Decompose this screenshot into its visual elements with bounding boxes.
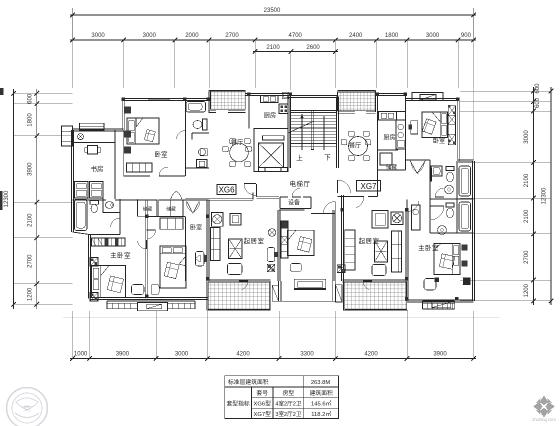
master balcony1 rail xyxy=(107,300,195,302)
svg-text:XG7: XG7 xyxy=(360,182,377,191)
master1 door xyxy=(146,240,148,249)
svg-text:2400: 2400 xyxy=(349,33,363,39)
svg-text:3000: 3000 xyxy=(175,352,189,358)
dining2 table xyxy=(349,137,368,156)
bath1 door xyxy=(185,131,187,140)
svg-text:2100: 2100 xyxy=(266,45,280,51)
living2 armoire xyxy=(345,230,355,270)
hall2 walls xyxy=(406,159,431,161)
living1 tv cabinet xyxy=(229,239,243,259)
bottom extension lines xyxy=(72,311,74,359)
master balcony2 planter xyxy=(432,302,451,308)
living1 east table xyxy=(268,229,276,237)
bath2 washer xyxy=(197,160,208,168)
hall arch double door xyxy=(171,192,182,199)
bedroom1 east wall xyxy=(185,100,187,176)
bedroom2 door xyxy=(147,229,156,231)
column g xyxy=(206,277,209,280)
master2 pouf xyxy=(424,279,436,291)
bedroom1 west wall xyxy=(123,130,125,176)
column c xyxy=(207,98,210,101)
left extension lines xyxy=(14,92,73,94)
bedroom2 pouf xyxy=(151,285,159,295)
middle bedroom bay window xyxy=(294,279,326,289)
right dimension row xyxy=(533,87,535,305)
master bedroom1 wardrobe xyxy=(92,238,126,246)
bath5 sink xyxy=(438,226,447,235)
master2 walls xyxy=(406,200,408,212)
svg-text:厨房: 厨房 xyxy=(383,134,395,142)
column s xyxy=(405,208,408,211)
svg-text:118.2㎡: 118.2㎡ xyxy=(311,410,331,418)
left overall dimension 12300 xyxy=(13,89,15,309)
svg-text:1800: 1800 xyxy=(28,113,34,127)
column a xyxy=(122,98,125,101)
svg-text:263.8M: 263.8M xyxy=(311,380,331,386)
bath3 partition b xyxy=(103,212,120,214)
svg-text:600: 600 xyxy=(28,93,34,104)
master bedroom1 bed xyxy=(92,266,126,298)
balcony2 rail xyxy=(344,309,408,311)
unit XG6 entry door xyxy=(244,183,256,185)
storage2 room xyxy=(378,169,406,171)
svg-text:900: 900 xyxy=(461,33,472,39)
svg-text:卧室: 卧室 xyxy=(433,137,445,145)
svg-text:电梯厅: 电梯厅 xyxy=(290,179,311,188)
bedroom1 bottom wall xyxy=(124,175,150,177)
svg-text:4室2厅2卫: 4室2厅2卫 xyxy=(275,400,302,408)
top dimension row xyxy=(70,39,476,41)
master balcony1 planter xyxy=(138,303,168,311)
shoe cabinet xyxy=(160,218,183,229)
hall south wall xyxy=(311,213,335,215)
svg-text:2100: 2100 xyxy=(524,209,530,223)
svg-text:3室2厅2卫: 3室2厅2卫 xyxy=(275,410,302,418)
unit XG7 outer walls xyxy=(378,93,406,95)
svg-text:标准层建筑面积: 标准层建筑面积 xyxy=(228,378,269,386)
living1 coffee table xyxy=(228,264,243,275)
column m xyxy=(375,93,378,96)
svg-text:3900: 3900 xyxy=(433,352,447,358)
bedroom1 door xyxy=(159,175,168,177)
kitchen1 counter sink xyxy=(261,96,279,103)
bath4 sink xyxy=(431,166,442,176)
master balcony1 posts xyxy=(111,303,113,309)
living1 sofa xyxy=(211,228,221,261)
svg-text:3900: 3900 xyxy=(116,352,130,358)
svg-text:3300: 3300 xyxy=(300,352,314,358)
svg-text:主卧室: 主卧室 xyxy=(110,250,131,259)
svg-text:2700: 2700 xyxy=(28,254,34,268)
top sub dimension 2100 2600 xyxy=(253,51,338,53)
master balcony2 posts xyxy=(426,303,428,309)
svg-text:4700: 4700 xyxy=(289,33,303,39)
middle bedroom closet xyxy=(281,221,288,258)
svg-text:12300: 12300 xyxy=(4,190,10,207)
balcony1 planter xyxy=(272,285,278,301)
bath4 door xyxy=(435,196,444,198)
bedroom2 bed xyxy=(160,246,186,288)
svg-text:房型: 房型 xyxy=(283,389,295,397)
svg-text:3900: 3900 xyxy=(28,162,34,176)
overall top dimension 23500 xyxy=(70,14,476,16)
svg-text:600: 600 xyxy=(535,83,541,94)
svg-text:卧室: 卧室 xyxy=(155,150,169,159)
master bedroom1 walls xyxy=(145,200,147,299)
svg-text:套型指标: 套型指标 xyxy=(226,400,249,408)
bedroom1 closet xyxy=(127,163,153,172)
stair treads xyxy=(291,112,337,114)
column n xyxy=(403,93,406,96)
bedroom3 bay window xyxy=(412,93,443,101)
light well left duct xyxy=(278,281,280,301)
svg-text:600: 600 xyxy=(535,97,541,108)
column k xyxy=(145,295,148,298)
svg-text:2100: 2100 xyxy=(28,213,34,227)
living2 armchair xyxy=(372,211,388,229)
kitchen1 stove xyxy=(279,104,288,114)
bath4 toilet xyxy=(446,167,454,171)
hall door xyxy=(334,202,336,214)
bath1 partition xyxy=(192,132,209,134)
equipment room xyxy=(279,197,281,209)
corridor wall west xyxy=(186,198,254,200)
living1 door double xyxy=(187,201,193,213)
study desk xyxy=(88,146,98,155)
svg-text:餐厅: 餐厅 xyxy=(231,139,243,147)
middle bedroom walls xyxy=(332,210,334,281)
bath3 door xyxy=(119,218,121,228)
svg-text:套号: 套号 xyxy=(256,389,268,397)
living2 corner unit xyxy=(337,265,345,273)
right overall dimension 12300 xyxy=(550,87,552,305)
svg-text:XG6: XG6 xyxy=(219,185,236,194)
bath5 toilet xyxy=(446,203,454,207)
service balcony XG7 south wall xyxy=(338,111,356,113)
master2 bed xyxy=(434,244,460,275)
stair stringer xyxy=(311,111,314,150)
svg-text:145.6㎡: 145.6㎡ xyxy=(311,400,332,408)
column t xyxy=(405,297,408,300)
svg-text:4200: 4200 xyxy=(364,352,378,358)
dining1 table xyxy=(230,143,249,162)
bedroom2 walls xyxy=(147,216,185,218)
study top bay window xyxy=(80,123,105,130)
column p xyxy=(340,208,343,211)
bath2 sink xyxy=(199,149,206,156)
bath1 toilet xyxy=(203,119,208,130)
bedroom2 chair xyxy=(196,252,205,267)
bath3 partition a xyxy=(102,199,104,213)
balcony1 rail xyxy=(207,309,271,311)
study fan symbol xyxy=(78,134,84,140)
svg-text:2600: 2600 xyxy=(306,45,320,51)
elevator X xyxy=(259,143,284,168)
svg-text:1200: 1200 xyxy=(524,283,530,297)
master bedroom1 pouf xyxy=(132,285,145,295)
living1 balcony door xyxy=(239,280,248,282)
svg-text:建筑面积: 建筑面积 xyxy=(310,389,333,397)
left edge axis mark middle xyxy=(0,191,3,210)
living1 armchair xyxy=(230,214,241,226)
service balcony XG6 south wall xyxy=(209,110,216,112)
stair break line xyxy=(288,121,314,133)
svg-text:2000: 2000 xyxy=(185,33,199,39)
left edge axis mark top xyxy=(0,88,4,95)
watermark right logo xyxy=(533,396,555,418)
svg-text:3000: 3000 xyxy=(426,33,440,39)
column e xyxy=(288,93,291,96)
bedroom3 closet xyxy=(448,106,455,145)
corridor wall jog xyxy=(252,193,254,200)
service balcony XG6 hatch xyxy=(211,91,246,109)
balcony1 hatch xyxy=(208,282,270,310)
balcony2 hatch xyxy=(345,282,407,310)
column j xyxy=(145,215,148,218)
storage closets xyxy=(138,200,158,216)
svg-text:储藏: 储藏 xyxy=(386,163,397,171)
stair down arrow xyxy=(323,116,325,150)
svg-text:2700: 2700 xyxy=(524,250,530,264)
study upper sill xyxy=(73,142,116,144)
elevator doors xyxy=(259,168,266,172)
bedroom3 bed xyxy=(422,112,448,138)
bedroom1 window xyxy=(148,99,170,101)
column u xyxy=(455,297,458,300)
column master1 a xyxy=(90,258,98,267)
bath1 tub xyxy=(186,102,206,113)
kitchen1 walls xyxy=(246,93,291,95)
living2 entry door xyxy=(337,180,339,193)
bedroom1 bedside tables xyxy=(124,107,131,114)
svg-text:4200: 4200 xyxy=(236,352,250,358)
light well right duct xyxy=(332,281,334,301)
kitchen2 top counter xyxy=(379,112,397,121)
bath4 tub xyxy=(459,166,471,196)
column f xyxy=(206,215,209,218)
living2 balcony door xyxy=(363,280,372,282)
hall partition walls xyxy=(115,198,138,200)
study bay window xyxy=(62,126,73,146)
middle bedroom pouf xyxy=(290,264,301,272)
living2 tv cabinet xyxy=(375,241,388,262)
svg-text:1800: 1800 xyxy=(385,33,399,39)
bedroom3 walls xyxy=(446,100,448,150)
study east wall xyxy=(114,130,116,199)
master2 dresser xyxy=(412,205,421,230)
svg-text:3000: 3000 xyxy=(91,33,105,39)
svg-text:起居室: 起居室 xyxy=(359,236,380,245)
master balcony2 rail xyxy=(423,300,455,302)
svg-text:zhulong.com: zhulong.com xyxy=(532,417,556,422)
bath4 column xyxy=(429,168,432,182)
svg-text:厨房: 厨房 xyxy=(264,112,276,120)
left dimension row xyxy=(36,89,38,309)
dining2 door xyxy=(352,196,364,198)
column r xyxy=(405,277,408,280)
svg-text:下: 下 xyxy=(324,154,331,162)
bath4 drain xyxy=(445,185,454,194)
living2 coffee table xyxy=(372,265,386,276)
bedroom1 bed xyxy=(127,118,159,144)
stair up arrow xyxy=(301,116,303,150)
svg-text:12300: 12300 xyxy=(542,187,548,204)
svg-text:储藏: 储藏 xyxy=(166,206,176,213)
service balcony XG7 hatch xyxy=(338,92,376,111)
bath5 walls xyxy=(430,231,474,233)
column o xyxy=(456,98,459,101)
bedroom2 east wall xyxy=(185,217,187,282)
column master2 a xyxy=(463,278,471,286)
column d xyxy=(247,93,250,96)
light well bottom xyxy=(279,300,336,302)
living2 side table top xyxy=(391,212,403,225)
living1 corner unit xyxy=(267,264,275,272)
balcony2 planter xyxy=(336,285,343,302)
svg-text:3000: 3000 xyxy=(143,33,157,39)
living2 sofa xyxy=(392,231,402,272)
svg-text:1000: 1000 xyxy=(74,352,88,358)
study cabinets xyxy=(75,182,89,199)
svg-text:23500: 23500 xyxy=(264,8,281,14)
svg-text:筑: 筑 xyxy=(24,404,31,413)
svg-text:上: 上 xyxy=(296,153,303,162)
svg-text:XG7型: XG7型 xyxy=(253,410,271,418)
middle bedroom bed xyxy=(287,230,314,255)
master2 bedside tables xyxy=(462,245,468,251)
summary table frame xyxy=(225,376,339,419)
column master1 b xyxy=(90,293,98,302)
living1 east chair xyxy=(267,248,275,262)
column b xyxy=(183,98,186,101)
bottom dimension row xyxy=(70,358,476,360)
corridor wall east xyxy=(257,196,280,198)
bath3 tub xyxy=(75,200,88,231)
svg-text:设备: 设备 xyxy=(288,199,300,207)
top extension lines xyxy=(72,40,74,88)
unit XG6 outer walls top xyxy=(124,98,209,100)
bath5 tub xyxy=(459,202,471,231)
svg-text:3000: 3000 xyxy=(524,130,530,144)
bath3 toilet xyxy=(90,200,99,204)
bath3 walls xyxy=(119,199,121,235)
kitchen2 walls xyxy=(377,95,379,197)
svg-text:主卧室: 主卧室 xyxy=(418,243,439,252)
right extension lines xyxy=(460,90,551,92)
svg-text:2700: 2700 xyxy=(225,33,239,39)
stairwell walls xyxy=(289,95,338,97)
column v xyxy=(434,277,439,282)
watermark left logo xyxy=(7,388,48,426)
XG6 tag box xyxy=(217,184,236,194)
svg-text:卧室: 卧室 xyxy=(190,224,202,232)
XG7 tag box xyxy=(357,181,381,192)
bath3 sink xyxy=(105,202,113,209)
svg-text:餐厅: 餐厅 xyxy=(349,142,361,150)
dining2 south wall xyxy=(338,196,353,198)
elevator shaft xyxy=(254,129,288,172)
svg-text:XG6型: XG6型 xyxy=(253,400,271,408)
hall2 double door xyxy=(410,161,417,174)
bath5 door xyxy=(430,205,444,207)
kitchen2 side counter xyxy=(396,120,406,149)
ground line below plan xyxy=(63,317,500,319)
svg-text:1200: 1200 xyxy=(28,287,34,301)
bedroom3 dresser xyxy=(411,121,418,134)
kitchen1 fridge xyxy=(282,92,288,98)
svg-text:起居室: 起居室 xyxy=(244,236,265,245)
svg-text:2100: 2100 xyxy=(524,173,530,187)
svg-text:书房: 书房 xyxy=(91,164,104,173)
living1 side table top xyxy=(212,213,224,227)
